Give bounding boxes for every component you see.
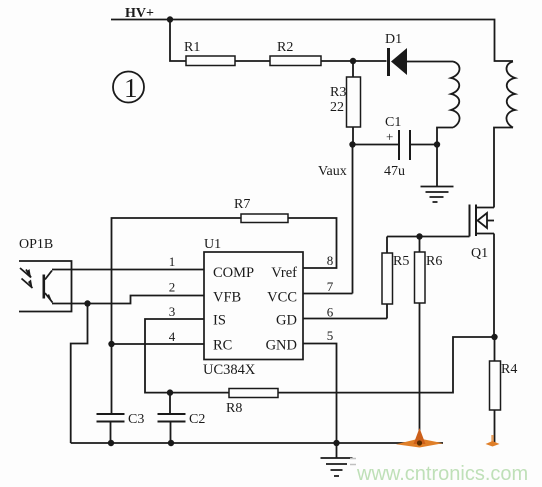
inductor left winding [451,62,460,128]
node: Vaux junction (R3 bottom) [349,141,355,147]
wire R2 to D1 [321,60,387,62]
chip U1 UC384X [169,237,334,378]
svg-text:4: 4 [169,329,176,344]
svg-text:+: + [386,129,393,144]
wire: HV+ top rail [111,20,513,62]
ground (bottom) [321,443,353,476]
node: GND pin rail junction [333,440,339,446]
wire: left winding bottom to C1 node [437,128,453,145]
svg-text:OP1B: OP1B [19,237,53,252]
svg-text:GND: GND [266,338,297,354]
svg-text:3: 3 [169,304,176,319]
wire: HV+ down to R1 [170,20,186,62]
svg-text:2: 2 [169,280,176,295]
capacitor C2 [158,393,206,443]
svg-text:GD: GD [276,313,297,329]
svg-text:UC384X: UC384X [203,362,256,378]
resistor R3 [330,61,361,145]
watermark orange mark at R4 foot [486,435,500,447]
svg-text:HV+: HV+ [125,6,154,21]
svg-text:Q1: Q1 [471,246,488,261]
node: R3 top junction [350,58,356,64]
wire: RC pin 4 [112,343,205,345]
wire: right winding bottom to Q1 drain [494,128,513,208]
svg-text:5: 5 [327,328,334,343]
svg-text:6: 6 [327,305,334,320]
inductor right winding [506,62,515,128]
svg-text:R4: R4 [501,362,517,377]
optocoupler OP1B [19,237,72,312]
svg-text:R5: R5 [393,254,409,269]
svg-text:C1: C1 [385,115,401,130]
wire: GND pin 5 [303,344,337,444]
wire R1 to R2 [235,60,270,62]
watermark orange arrow at R6 ground [396,428,443,448]
svg-text:R2: R2 [277,40,293,55]
svg-text:R3: R3 [330,85,346,100]
svg-text:8: 8 [327,253,334,268]
resistor R7 [112,197,337,344]
wire: current sense line to R8 [278,337,495,393]
svg-text:Vref: Vref [271,265,297,281]
wire: VCC pin 7 [303,293,353,295]
node: opto emitter junction [84,300,90,306]
transistor Q1 (MOSFET) [470,205,495,262]
svg-text:R8: R8 [226,401,242,416]
resistor R8 [226,389,278,417]
svg-text:VFB: VFB [213,290,241,306]
svg-text:47u: 47u [384,164,405,179]
wire: bottom ground rail [71,442,443,444]
resistor R1 [186,56,235,66]
node: HV+ junction [167,16,173,22]
node: C1 right junction [434,141,440,147]
svg-text:R6: R6 [426,254,442,269]
svg-text:IS: IS [213,313,226,329]
resistor R6 [415,237,443,304]
wire: Vaux to VCC pin 7 [352,145,354,294]
wire: VFB pin 2 to opto emitter [52,296,204,304]
resistor R5 [382,237,409,319]
wire: R6 bottom to ground rail [419,303,421,443]
wire: gate line [387,236,470,238]
wire: Q1 source down [493,234,495,338]
svg-text:D1: D1 [385,32,402,47]
svg-text:RC: RC [213,338,232,354]
svg-text:1: 1 [169,254,176,269]
svg-text:www.cntronics.com: www.cntronics.com [356,463,528,485]
svg-text:C2: C2 [189,412,205,427]
svg-text:U1: U1 [204,237,221,252]
svg-text:22: 22 [330,100,344,115]
wire: COMP pin 1 from opto collector [52,269,204,271]
resistor R2 [270,56,321,66]
capacitor C1 [353,115,438,179]
svg-text:COMP: COMP [213,265,254,281]
svg-text:7: 7 [327,279,334,294]
node: source/R4/sense junction [491,334,497,340]
svg-text:R7: R7 [234,197,250,212]
ground (under C1) [421,145,454,203]
capacitor C3 [97,344,145,443]
svg-text:Vaux: Vaux [318,164,347,179]
svg-text:VCC: VCC [267,290,297,306]
node: R8/C2 junction [167,389,173,395]
svg-text:R1: R1 [184,40,200,55]
watermark equals artifact [350,459,356,465]
node: C2 on rail [168,440,174,446]
wire: R8 to IS pin [145,319,229,393]
svg-text:C3: C3 [128,412,144,427]
node: gate/R6 junction [416,233,422,239]
wire: feedback branch down to ground rail [71,304,88,444]
node: C3 on rail [108,440,114,446]
wire: GD pin 6 [303,318,387,320]
node: RC/R7/C3 junction [108,341,114,347]
circled 1 marker [113,72,144,104]
resistor R4 [490,337,518,443]
svg-text:1: 1 [124,73,138,103]
diode D1 [385,32,453,76]
